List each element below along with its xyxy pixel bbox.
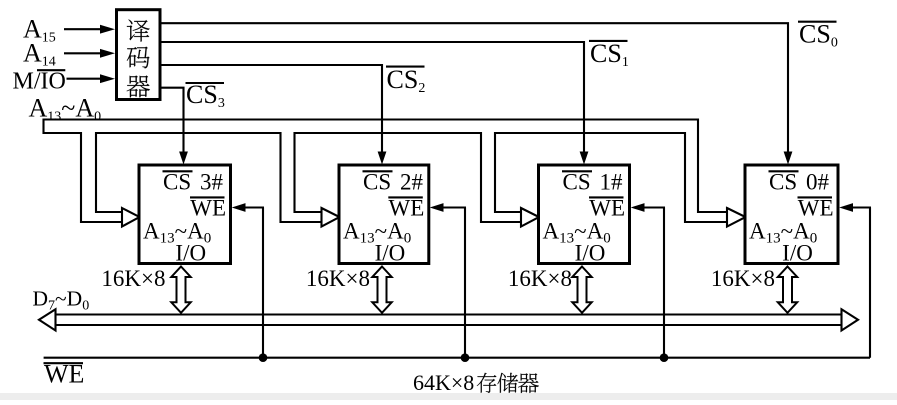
pin arrow CS2 into chip top xyxy=(378,152,387,165)
svg-text:I/O: I/O xyxy=(575,241,606,266)
svg-text:16K×8: 16K×8 xyxy=(306,266,370,291)
svg-text:2#: 2# xyxy=(400,170,424,195)
address bus end branch to chip 0# (hollow arrow) xyxy=(685,119,728,223)
memory chip U0 16K×8 #0 xyxy=(745,165,838,264)
address bus left end cap xyxy=(42,119,44,135)
svg-text:I/O: I/O xyxy=(175,241,206,266)
wire decoder output CS2 xyxy=(161,65,382,153)
wire decoder output CS0 xyxy=(161,23,788,153)
svg-text:16K×8: 16K×8 xyxy=(101,266,165,291)
memory chip U2 16K×8 #2 xyxy=(339,165,429,264)
I/O port double arrow (chip to data bus) xyxy=(171,267,190,313)
memory chip U3 16K×8 #3 xyxy=(139,165,231,264)
svg-text:M/IO: M/IO xyxy=(13,69,66,95)
pin arrow CS1 into chip top xyxy=(580,152,589,165)
wire WE to chip (arrow into right edge) xyxy=(644,208,666,358)
svg-text:WE: WE xyxy=(798,196,834,221)
pin arrow CS3 into chip top xyxy=(179,152,188,165)
svg-text:3#: 3# xyxy=(200,170,224,195)
svg-text:0#: 0# xyxy=(806,170,830,195)
junction dot chip 1# WE xyxy=(660,353,669,362)
memory chip U1 16K×8 #1 xyxy=(539,165,630,264)
svg-text:16K×8: 16K×8 xyxy=(711,266,775,291)
I/O port double arrow (chip to data bus) xyxy=(572,267,591,313)
svg-text:64K×8: 64K×8 xyxy=(413,370,474,395)
svg-text:I/O: I/O xyxy=(782,241,813,266)
pin arrow CS0 into chip top xyxy=(784,152,793,165)
data bus D7~D0 (hollow double arrow) xyxy=(54,315,843,326)
address bus bottom line segments xyxy=(44,132,686,134)
wire decoder output CS1 xyxy=(161,42,584,153)
svg-text:WE: WE xyxy=(190,196,226,221)
decoder U1 译码器 xyxy=(117,10,161,100)
svg-text:WE: WE xyxy=(389,196,425,221)
wire A14 to decoder xyxy=(64,52,102,54)
wire M/IO to decoder xyxy=(67,78,103,80)
svg-text:D7​~D0​: D7​~D0​ xyxy=(33,286,90,313)
address bus A13~A0 top line xyxy=(44,118,699,120)
svg-text:CS: CS xyxy=(769,170,797,195)
wire WE to chip (arrow into right edge) xyxy=(852,208,871,358)
address bus branch to chip 1# (hollow arrow) xyxy=(481,132,522,222)
wire WE to chip (arrow into right edge) xyxy=(245,208,265,358)
I/O port double arrow (chip to data bus) xyxy=(372,267,391,313)
I/O port double arrow (chip to data bus) xyxy=(778,267,797,313)
svg-text:1#: 1# xyxy=(600,170,624,195)
wire decoder output CS3 xyxy=(161,88,184,153)
address bus branch to chip 3# (hollow arrow) xyxy=(81,132,123,222)
junction dot chip 3# WE xyxy=(259,353,268,362)
bottom page edge shading xyxy=(0,393,897,400)
WE bus wire xyxy=(44,357,870,359)
svg-text:CS: CS xyxy=(563,170,591,195)
svg-text:WE: WE xyxy=(589,196,625,221)
svg-text:I/O: I/O xyxy=(375,241,406,266)
svg-text:16K×8: 16K×8 xyxy=(508,266,572,291)
wire A15 to decoder xyxy=(64,28,102,30)
junction dot chip 2# WE xyxy=(461,353,470,362)
address bus branch to chip 2# (hollow arrow) xyxy=(281,132,323,222)
svg-text:CS: CS xyxy=(363,170,391,195)
svg-text:CS: CS xyxy=(163,170,191,195)
wire WE to chip (arrow into right edge) xyxy=(443,208,467,358)
